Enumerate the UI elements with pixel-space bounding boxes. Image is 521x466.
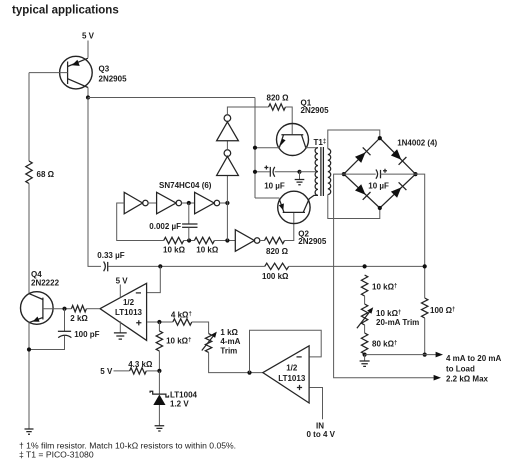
wire left rail middle (68 ohm to Q4 collector) <box>28 184 30 295</box>
resistor 4k dagger <box>173 319 192 325</box>
svg-text:2 kΩ: 2 kΩ <box>70 314 88 323</box>
wire 4k to 1k pot <box>192 322 209 334</box>
wire op-amp A noninverting input <box>147 321 173 323</box>
svg-text:1/2: 1/2 <box>123 298 135 307</box>
wire op-amp B feedback <box>250 330 322 372</box>
inverter U1E <box>217 150 239 176</box>
wire 1k pot to op-amp B output <box>209 352 263 372</box>
resistor 820 ohm (Q1 base) <box>269 104 286 110</box>
op-amp U2A 1/2 LT1013 <box>100 283 147 340</box>
wire 80k to ground node <box>364 353 366 356</box>
inverter U1D <box>235 230 260 252</box>
svg-text:10 kΩ: 10 kΩ <box>163 245 186 254</box>
diode bridge 1N4002 (4) <box>344 138 438 208</box>
svg-text:‡ T1 = PICO-31080: ‡ T1 = PICO-31080 <box>19 450 94 460</box>
svg-text:820 Ω: 820 Ω <box>266 247 289 256</box>
inverter U1F <box>217 115 239 141</box>
svg-text:2N2222: 2N2222 <box>31 278 60 287</box>
resistor 80k dagger <box>361 333 367 354</box>
wire left rail upper (Q3 base to 68 ohm) <box>28 73 30 161</box>
svg-text:0.33 µF: 0.33 µF <box>97 251 124 260</box>
wire U1D out to 820 ohm <box>260 240 265 242</box>
wire feedback node to op-amp inverting input <box>147 266 160 292</box>
potentiometer 10k 20-mA Trim <box>357 304 419 328</box>
wire Q3 collector stub <box>87 88 89 98</box>
node 10k junction <box>187 238 191 242</box>
svg-text:1N4002 (4): 1N4002 (4) <box>397 139 437 148</box>
ground (left rail) <box>25 429 34 434</box>
ground (trim network) <box>360 355 370 367</box>
svg-text:10 kΩ†: 10 kΩ† <box>372 283 397 292</box>
svg-text:20-mA Trim: 20-mA Trim <box>376 318 419 327</box>
transistor Q4 2N2222 <box>21 270 60 324</box>
node bridge top <box>378 136 382 140</box>
svg-text:4.3 kΩ: 4.3 kΩ <box>128 360 153 369</box>
ground (center tap) <box>295 172 305 185</box>
arrow load return <box>434 375 441 381</box>
svg-text:1.2 V: 1.2 V <box>170 400 189 409</box>
capacitor 10uF (bridge) <box>344 169 416 191</box>
svg-text:820 Ω: 820 Ω <box>267 93 290 102</box>
wire 100k to trim rail <box>289 265 425 267</box>
wire top supply rail to right <box>88 97 255 99</box>
node output right <box>423 353 427 357</box>
wire pot to 80k <box>364 325 366 333</box>
zener LT1004 1.2V <box>150 371 197 426</box>
ground (op-amp A) <box>114 321 127 339</box>
wire 5V to 4.3k <box>114 370 130 372</box>
wire vertical inverter column <box>226 176 228 241</box>
wire Q4 base to 2k <box>43 308 72 310</box>
wire Q1 emitter to rail <box>255 147 279 149</box>
svg-text:1/2: 1/2 <box>286 363 298 372</box>
wire 5V to Q3 emitter <box>87 41 89 58</box>
ground (LT1004) <box>155 426 165 431</box>
svg-text:4-mA: 4-mA <box>220 337 240 346</box>
node bridge left <box>342 172 346 176</box>
op-amp U2B 1/2 LT1013 <box>263 346 309 403</box>
svg-text:68 Ω: 68 Ω <box>37 170 55 179</box>
svg-text:LT1013: LT1013 <box>278 374 306 383</box>
potentiometer 1k 4-mA Trim <box>202 328 241 356</box>
wire Q1 collector to T1 primary top <box>306 147 318 149</box>
wire supply rail to Q2 emitter <box>255 197 279 199</box>
wire 820 ohm to Q1 base <box>285 107 292 134</box>
svg-text:4 mA to 20 mA: 4 mA to 20 mA <box>446 354 501 363</box>
node trim rail right <box>423 264 427 268</box>
svg-text:10 kΩ†: 10 kΩ† <box>166 337 191 346</box>
node center tap junction <box>297 170 301 174</box>
wire bridge left node to load return <box>334 174 434 378</box>
node op-amp A plus input <box>157 320 161 324</box>
resistor 820 ohm (Q2 base) <box>265 237 285 243</box>
svg-text:IN: IN <box>316 421 324 430</box>
wire 4.3k to node <box>146 370 159 372</box>
wire between 10k resistors <box>184 240 195 242</box>
svg-text:0.002 µF: 0.002 µF <box>149 222 181 231</box>
node 100pF return <box>27 347 31 351</box>
node output left <box>363 353 367 357</box>
wire supply rail vertical <box>254 98 256 199</box>
svg-text:LT1004: LT1004 <box>170 391 198 400</box>
node U1C output <box>225 201 229 205</box>
node U1C output to 10k junction <box>225 238 229 242</box>
transistor Q1 2N2905 <box>277 98 330 155</box>
svg-text:2N2905: 2N2905 <box>99 74 128 83</box>
resistor 100k <box>265 263 289 269</box>
svg-text:SN74HC04 (6): SN74HC04 (6) <box>159 181 212 190</box>
wire oscillator feedback loop <box>117 203 164 241</box>
capacitor 0.002uF <box>149 203 197 241</box>
svg-text:2.2 kΩ Max: 2.2 kΩ Max <box>446 375 489 384</box>
wire 0.33uF to feedback node <box>108 265 265 267</box>
svg-text:10 µF: 10 µF <box>368 182 389 191</box>
svg-text:5 V: 5 V <box>116 277 129 286</box>
svg-text:2N2905: 2N2905 <box>301 106 330 115</box>
capacitor 10uF (supply) <box>255 166 300 191</box>
node op-amp B output <box>247 371 251 375</box>
wire Q2 emitter to rail <box>255 197 279 199</box>
node 10uF at rail <box>253 170 257 174</box>
resistor 10k oscillator left <box>164 237 184 243</box>
inverter U1C <box>195 192 220 214</box>
svg-text:10 kΩ: 10 kΩ <box>196 245 219 254</box>
svg-text:5 V: 5 V <box>100 367 113 376</box>
wire 100 ohm to output node <box>424 318 426 355</box>
wire output line <box>365 354 436 356</box>
node bridge bottom <box>378 206 382 210</box>
wire bridge right node down to output rail <box>416 174 425 298</box>
svg-text:Trim: Trim <box>220 347 237 356</box>
node bridge right <box>413 172 417 176</box>
wire U1B out to node <box>182 202 195 204</box>
wire U1F out to 820 ohm <box>227 107 268 115</box>
transistor Q3 2N2905 <box>60 56 127 89</box>
node Q4 base <box>62 307 66 311</box>
wire 10k to pot <box>364 296 366 304</box>
svg-text:5 V: 5 V <box>82 32 95 41</box>
wire op-amp B noninverting input <box>309 388 322 420</box>
svg-text:2N2905: 2N2905 <box>298 237 327 246</box>
resistor 2k <box>71 306 86 312</box>
resistor 100 ohm dagger <box>422 298 428 318</box>
svg-text:LT1013: LT1013 <box>115 308 143 317</box>
wire Q3 collector down to 0.33uF <box>88 98 101 267</box>
wire T1 secondary top to bridge <box>328 130 380 149</box>
node Q1 emitter at rail <box>253 146 257 150</box>
wire 5V to op-amp A <box>119 285 121 298</box>
svg-text:to Load: to Load <box>446 365 475 374</box>
wire 10k to U1D input <box>214 240 235 242</box>
node trim rail left <box>363 264 367 268</box>
wire 2k to op-amp A output <box>86 308 100 310</box>
svg-text:1 kΩ: 1 kΩ <box>220 328 238 337</box>
wire 820 ohm to Q2 base <box>285 213 294 241</box>
node Q3 collector junction <box>86 95 90 99</box>
svg-text:10 µF: 10 µF <box>264 181 285 190</box>
resistor 10k dagger (upper) <box>361 275 367 296</box>
capacitor 100pF <box>29 309 100 350</box>
resistor 4.3k <box>130 368 147 374</box>
svg-text:100 Ω†: 100 Ω† <box>430 306 455 315</box>
arrow output to load <box>436 352 443 358</box>
capacitor 0.33uF <box>97 251 124 272</box>
node feedback <box>158 264 162 268</box>
svg-text:typical applications: typical applications <box>12 5 119 17</box>
inverter U1B <box>157 192 182 214</box>
svg-text:10 kΩ†: 10 kΩ† <box>376 309 401 318</box>
transistor Q2 2N2905 <box>278 191 327 246</box>
wire center tap to T1 <box>300 171 319 173</box>
svg-text:Q3: Q3 <box>99 65 110 74</box>
svg-text:100 kΩ: 100 kΩ <box>262 272 289 281</box>
inverter U1A <box>124 192 148 214</box>
wire Q3 base to left rail <box>29 72 68 74</box>
wire T1 secondary bottom to bridge <box>328 195 380 219</box>
resistor 68 ohm <box>26 161 32 184</box>
wire left rail lower (Q4 emitter to ground) <box>28 323 30 430</box>
svg-text:80 kΩ†: 80 kΩ† <box>372 340 397 349</box>
resistor 10k dagger (op-amp A) <box>156 322 191 371</box>
node U1B output <box>187 201 191 205</box>
wire U1E out to U1F in <box>226 141 228 150</box>
wire U1C out to node <box>220 202 228 204</box>
node reference <box>157 369 161 373</box>
svg-text:100 pF: 100 pF <box>74 330 99 339</box>
svg-text:0 to 4 V: 0 to 4 V <box>307 430 336 439</box>
resistor 10k oscillator right <box>194 237 214 243</box>
wire U1A out to U1B in <box>148 202 156 204</box>
transformer T1 <box>314 138 331 196</box>
